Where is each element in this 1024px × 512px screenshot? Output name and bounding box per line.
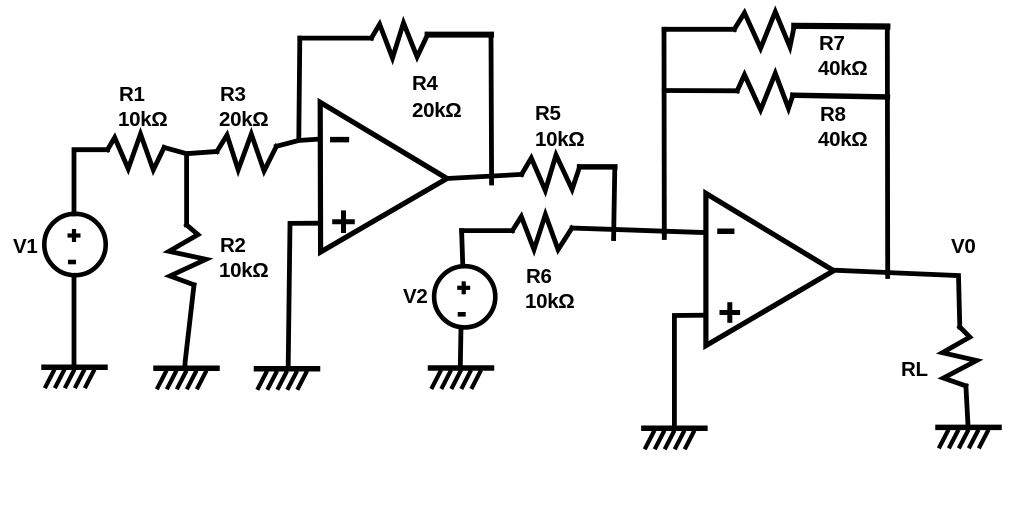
wire: R7 left lead bbox=[664, 27, 734, 32]
wire: left vertical up to R7/R8 bbox=[662, 29, 667, 233]
wire: R8 left lead bbox=[664, 88, 737, 93]
op-amp U2 bbox=[706, 193, 834, 345]
wire: R5 right lead bbox=[580, 164, 615, 170]
voltage source V1 bbox=[44, 214, 105, 275]
svg-text:40kΩ: 40kΩ bbox=[818, 128, 867, 151]
ground below U1 + input bbox=[257, 369, 318, 390]
resistor R2 10kΩ zigzag bbox=[169, 225, 206, 285]
ground below RL bbox=[938, 427, 999, 448]
wire: right vertical down to output node bbox=[885, 27, 890, 277]
U1 + sign (vertical) bbox=[341, 213, 346, 231]
op-amp U1 bbox=[320, 102, 447, 252]
U2 non-inverting input + sign (horizontal) bbox=[722, 310, 738, 315]
voltage source V2 bbox=[434, 266, 495, 327]
wire: feedback right vertical to U1 output bbox=[489, 35, 494, 183]
svg-text:10kΩ: 10kΩ bbox=[118, 108, 167, 131]
ground below U2 + input bbox=[644, 428, 705, 449]
svg-text:V0: V0 bbox=[951, 235, 975, 258]
svg-text:40kΩ: 40kΩ bbox=[818, 57, 867, 80]
wire: R8 right lead bbox=[793, 95, 888, 97]
wire: V1 bottom lead to ground bbox=[72, 276, 77, 366]
wire: R3 to op-amp U1 inverting input bbox=[276, 139, 320, 146]
svg-text:R2: R2 bbox=[220, 234, 246, 257]
resistor R6 10kΩ zigzag bbox=[512, 215, 572, 250]
U2 inverting input - sign bbox=[720, 228, 732, 234]
ground below V2 bbox=[431, 368, 492, 389]
wire: junction overshoot at U2 - node bbox=[662, 233, 667, 238]
resistor R1 10kΩ zigzag bbox=[108, 134, 165, 170]
wire: R4 left lead bbox=[300, 36, 372, 41]
svg-text:V1: V1 bbox=[13, 235, 37, 258]
resistor RL zigzag bbox=[942, 327, 976, 386]
svg-text:R4: R4 bbox=[412, 72, 439, 95]
wire: feedback left vertical to R4 bbox=[299, 38, 300, 139]
svg-text:R8: R8 bbox=[820, 103, 846, 126]
wire: U2 output to node V0 and down to RL bbox=[834, 270, 960, 327]
svg-text:10kΩ: 10kΩ bbox=[525, 290, 574, 313]
wire: R5 branch down to summing node bbox=[614, 167, 615, 239]
wire: U1 output to R5 bbox=[447, 174, 522, 178]
wire: U1 non-inverting input to ground bbox=[288, 223, 320, 366]
wire: R1 to R3 through node bbox=[164, 148, 217, 154]
svg-text:R7: R7 bbox=[819, 32, 845, 55]
resistor R4 20kΩ zigzag bbox=[371, 23, 427, 58]
svg-text:R3: R3 bbox=[220, 83, 246, 106]
resistor R3 20kΩ zigzag bbox=[217, 134, 277, 171]
wire: RL to ground bbox=[966, 386, 968, 426]
U2 + sign (vertical) bbox=[727, 305, 732, 321]
wire: V2 top lead bbox=[462, 231, 463, 266]
ground below R2 bbox=[156, 368, 217, 389]
resistor R7 40kΩ zigzag bbox=[734, 12, 794, 49]
wire: V2 to R6 bbox=[462, 228, 513, 233]
svg-text:20kΩ: 20kΩ bbox=[219, 108, 268, 131]
wire: V1 top lead to R1 bbox=[74, 150, 108, 214]
svg-text:RL: RL bbox=[901, 358, 928, 381]
U1 non-inverting input + sign (horizontal) bbox=[335, 219, 353, 224]
wire: R4 right lead bbox=[428, 32, 491, 38]
svg-text:20kΩ: 20kΩ bbox=[412, 99, 461, 122]
resistor R5 10kΩ zigzag bbox=[522, 155, 580, 191]
wire: R2 to ground bbox=[185, 285, 194, 367]
resistor R8 40kΩ zigzag bbox=[737, 73, 793, 110]
ground below V1 bbox=[44, 367, 105, 388]
U1 inverting input - sign bbox=[333, 137, 347, 143]
wire: node down to R2 bbox=[184, 154, 189, 225]
svg-text:10kΩ: 10kΩ bbox=[535, 128, 584, 151]
wire: R6 to U2 inverting input bbox=[572, 228, 706, 233]
wire: R7 right lead bbox=[794, 23, 887, 30]
svg-text:V2: V2 bbox=[403, 285, 427, 308]
wire: U2 non-inverting input to ground bbox=[674, 315, 706, 426]
svg-text:R1: R1 bbox=[119, 83, 145, 106]
svg-text:10kΩ: 10kΩ bbox=[219, 259, 268, 282]
svg-text:R6: R6 bbox=[526, 265, 552, 288]
wire: V2 bottom lead to ground bbox=[458, 328, 464, 367]
svg-text:R5: R5 bbox=[535, 102, 561, 125]
